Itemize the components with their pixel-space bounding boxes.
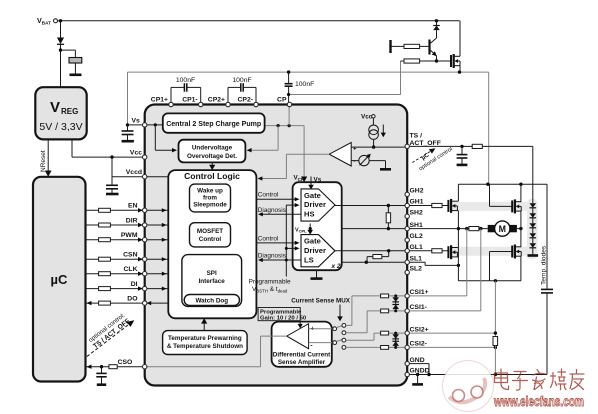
svg-text:Vs: Vs (314, 177, 322, 184)
svg-text:Differential Current: Differential Current (273, 351, 331, 358)
svg-text:CP2+: CP2+ (208, 97, 225, 104)
svg-text:Watch Dog: Watch Dog (195, 297, 228, 304)
svg-text:100nF: 100nF (176, 77, 195, 84)
svg-text:M: M (499, 224, 506, 234)
svg-text:DO: DO (127, 296, 137, 303)
svg-text:+: + (353, 147, 357, 153)
svg-text:Control: Control (199, 236, 222, 243)
svg-text:VCPL: VCPL (295, 227, 307, 233)
svg-text:NReset: NReset (40, 150, 47, 172)
svg-text:CLK: CLK (124, 266, 138, 273)
svg-text:Vcc: Vcc (130, 150, 142, 157)
svg-text:100nF: 100nF (232, 77, 251, 84)
svg-text:CSI2-: CSI2- (410, 341, 427, 348)
svg-text:HS: HS (304, 210, 315, 219)
svg-text:Overvoltage Det.: Overvoltage Det. (187, 153, 237, 160)
svg-text:DI: DI (131, 281, 138, 288)
svg-text:Programmable: Programmable (260, 309, 302, 315)
svg-text:100nF: 100nF (295, 81, 314, 88)
svg-text:CP: CP (277, 97, 287, 104)
svg-text:Wake up: Wake up (197, 188, 223, 195)
svg-text:µC: µC (51, 272, 68, 287)
svg-text:CSI1+: CSI1+ (410, 289, 429, 296)
svg-text:SH1: SH1 (410, 222, 423, 229)
svg-text:CSI2+: CSI2+ (410, 326, 429, 333)
svg-text:Sleepmode: Sleepmode (193, 202, 227, 209)
svg-text:TS /: TS / (410, 133, 423, 140)
svg-text:Vs: Vs (132, 117, 141, 124)
svg-text:V: V (50, 99, 60, 116)
svg-text:Central 2 Step Charge Pump: Central 2 Step Charge Pump (166, 119, 261, 128)
svg-text:PWM: PWM (121, 232, 138, 239)
svg-text:CSO: CSO (118, 359, 133, 366)
svg-text:Interface: Interface (199, 278, 226, 285)
svg-text:www.elecfans.com: www.elecfans.com (493, 393, 584, 409)
svg-text:GH1: GH1 (410, 199, 424, 206)
svg-text:GL2: GL2 (410, 233, 423, 240)
svg-text:Sense Amplifier: Sense Amplifier (278, 359, 326, 366)
svg-text:Undervoltage: Undervoltage (192, 145, 233, 152)
svg-text:SL2: SL2 (410, 266, 423, 273)
svg-text:SH2: SH2 (410, 210, 423, 217)
svg-text:Programmable: Programmable (249, 278, 291, 285)
svg-text:Control: Control (258, 192, 279, 199)
svg-text:SPI: SPI (207, 270, 217, 277)
svg-text:Driver: Driver (304, 200, 326, 209)
svg-text:CP1+: CP1+ (151, 97, 168, 104)
svg-text:Gate: Gate (304, 237, 321, 246)
svg-text:MOSFET: MOSFET (197, 228, 223, 235)
svg-text:x 2: x 2 (331, 263, 341, 270)
svg-text:CSN: CSN (123, 252, 137, 259)
svg-text:Gate: Gate (304, 191, 321, 200)
svg-text:SL1: SL1 (410, 255, 423, 262)
svg-text:Control Logic: Control Logic (184, 171, 240, 181)
svg-text:GND: GND (410, 357, 425, 364)
svg-text:Temp. diodes: Temp. diodes (541, 245, 548, 285)
svg-text:& Temperature Shutdown: & Temperature Shutdown (167, 343, 243, 350)
svg-text:Current Sense MUX: Current Sense MUX (291, 298, 351, 305)
svg-text:CSI1-: CSI1- (410, 304, 427, 311)
svg-text:EN: EN (128, 203, 138, 210)
svg-text:DIR: DIR (126, 217, 138, 224)
svg-text:+: + (311, 326, 315, 332)
svg-text:CP2-: CP2- (238, 97, 254, 104)
svg-text:Diagnosis: Diagnosis (258, 253, 286, 260)
svg-text:REG: REG (61, 107, 78, 116)
svg-text:Driver: Driver (304, 246, 326, 255)
svg-text:Temperature Prewarning: Temperature Prewarning (168, 335, 242, 342)
svg-text:Diagnosis: Diagnosis (258, 207, 286, 214)
svg-text:from: from (203, 195, 217, 202)
svg-text:Control: Control (258, 235, 279, 242)
svg-text:Vccd: Vccd (126, 169, 142, 176)
svg-text:Vcc: Vcc (361, 113, 373, 120)
svg-text:5V / 3,3V: 5V / 3,3V (39, 121, 82, 133)
svg-text:CP1-: CP1- (182, 97, 198, 104)
svg-text:GL1: GL1 (410, 244, 423, 251)
svg-text:LS: LS (304, 255, 314, 264)
svg-text:GH2: GH2 (410, 188, 424, 195)
svg-text:GNDD: GNDD (410, 368, 430, 375)
